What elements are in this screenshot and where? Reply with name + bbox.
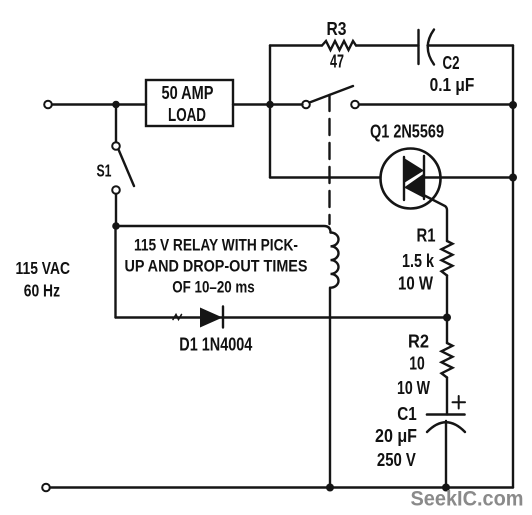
wire S1 top lead bbox=[115, 105, 117, 143]
wire top to R3 bbox=[270, 44, 322, 46]
junction R1/R2/D1 bbox=[443, 314, 451, 322]
svg-text:LOAD: LOAD bbox=[168, 105, 206, 125]
wire C2 to right vertical bbox=[428, 44, 514, 46]
wire R1 to junction bbox=[446, 276, 448, 344]
svg-text:D1 1N4004: D1 1N4004 bbox=[179, 335, 252, 355]
relay contact switch bbox=[302, 86, 359, 108]
load box 50 AMP bbox=[146, 80, 233, 126]
svg-text:47: 47 bbox=[330, 52, 344, 72]
terminal bottom-left bbox=[42, 484, 50, 492]
svg-text:0.1 μF: 0.1 μF bbox=[430, 75, 475, 95]
junction coil wire at bottom bbox=[326, 484, 334, 492]
triac lower triangle bbox=[404, 174, 424, 199]
relay coil bbox=[331, 233, 339, 288]
svg-text:10: 10 bbox=[409, 354, 425, 374]
svg-text:1.5 k: 1.5 k bbox=[402, 251, 435, 271]
svg-text:C1: C1 bbox=[397, 404, 417, 424]
svg-text:115 V RELAY WITH PICK-: 115 V RELAY WITH PICK- bbox=[134, 235, 298, 254]
resistor R2 bbox=[442, 343, 453, 378]
svg-text:S1: S1 bbox=[97, 161, 112, 181]
triac Q1 circle bbox=[381, 149, 441, 209]
squiggle mark on wire bbox=[173, 315, 182, 320]
switch S1 bbox=[112, 142, 134, 194]
dashed actuator link bbox=[328, 95, 330, 224]
svg-text:20 μF: 20 μF bbox=[375, 426, 417, 446]
triac upper triangle bbox=[404, 158, 424, 183]
junction right at contact wire bbox=[509, 101, 517, 109]
wire S1 to relay box bbox=[115, 194, 117, 226]
capacitor C2 bbox=[419, 30, 435, 65]
wire triac to right vertical bbox=[424, 176, 513, 178]
wire contact to right vertical bbox=[359, 103, 513, 105]
svg-text:R1: R1 bbox=[417, 225, 436, 245]
gate lead of Q1 bbox=[423, 195, 448, 242]
triac right bar MT bbox=[423, 156, 425, 199]
terminal top-left input bbox=[44, 101, 52, 109]
capacitor C1 polarized bbox=[427, 396, 465, 432]
svg-text:SeekIC.com: SeekIC.com bbox=[411, 488, 524, 511]
wire left to triac bbox=[270, 176, 404, 178]
wire top input to junction bbox=[52, 103, 146, 105]
diode D1 bbox=[200, 307, 223, 328]
svg-text:10 W: 10 W bbox=[398, 274, 433, 294]
svg-text:Q1 2N5569: Q1 2N5569 bbox=[370, 121, 444, 141]
relay box outline bbox=[116, 226, 331, 233]
svg-text:R3: R3 bbox=[327, 19, 347, 39]
svg-text:250 V: 250 V bbox=[377, 450, 416, 470]
svg-text:C2: C2 bbox=[443, 53, 460, 73]
svg-text:OF 10–20 ms: OF 10–20 ms bbox=[172, 278, 255, 297]
triac left bar MT bbox=[403, 157, 405, 200]
wire D1 net bbox=[116, 316, 448, 318]
svg-text:R2: R2 bbox=[408, 332, 429, 352]
junction at vertical branch bbox=[266, 101, 274, 109]
wire R3 to C2 bbox=[356, 44, 419, 46]
svg-text:10 W: 10 W bbox=[397, 378, 430, 398]
svg-text:60 Hz: 60 Hz bbox=[24, 281, 60, 301]
wire vertical branch (left side of R3/C2 loop) bbox=[269, 46, 271, 178]
wire right vertical bbox=[512, 46, 514, 488]
wire C1 to bottom bbox=[445, 421, 447, 488]
wire bottom bbox=[50, 486, 513, 488]
resistor R3 bbox=[322, 41, 356, 50]
svg-text:115 VAC: 115 VAC bbox=[16, 258, 71, 278]
junction C1 bottom bbox=[442, 484, 450, 492]
junction right at triac wire bbox=[509, 174, 517, 182]
wire coil bottom down bbox=[329, 288, 331, 488]
junction at relay box corner bbox=[112, 222, 120, 230]
wire R2 to C1 bbox=[446, 378, 448, 415]
svg-text:UP AND DROP-OUT TIMES: UP AND DROP-OUT TIMES bbox=[125, 257, 308, 276]
wire load box to relay contact bbox=[233, 103, 303, 105]
relay box left edge bbox=[114, 226, 116, 318]
junction at S1 branch bbox=[112, 101, 120, 109]
svg-text:50 AMP: 50 AMP bbox=[162, 83, 214, 103]
resistor R1 bbox=[442, 241, 453, 276]
